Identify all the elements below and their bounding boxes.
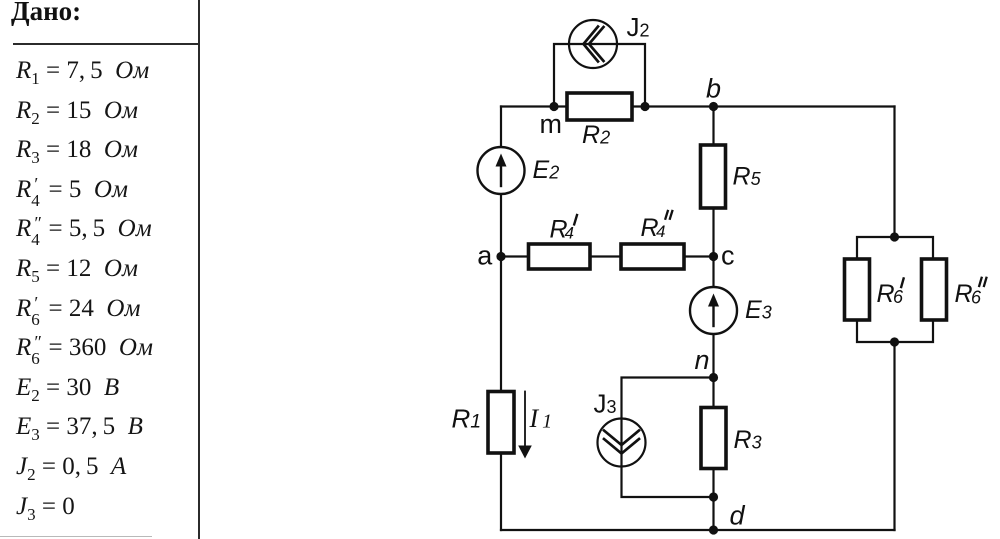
given J3 (16, 494, 75, 521)
svg-text:J3: J3 (594, 389, 617, 419)
svg-text:n: n (695, 345, 710, 375)
given R5 (16, 256, 138, 283)
resistor R5 (701, 145, 726, 208)
svg-text:R1: R1 (452, 404, 482, 434)
svg-text:6: 6 (971, 288, 982, 308)
current source J3 (598, 419, 646, 467)
faint bottom table line (0, 536, 152, 537)
junction R6 top (890, 232, 899, 241)
given list (0, 0, 200, 539)
wire: middle vertical branch b-c-n-d (712, 107, 714, 531)
wire: J2 bypass loop (554, 44, 645, 107)
svg-text:E2: E2 (533, 156, 560, 184)
svg-text:R: R (877, 280, 895, 308)
svg-text:d: d (730, 501, 746, 531)
current source J2 (569, 20, 617, 68)
wire: right vertical branch upper (893, 107, 895, 238)
node n (709, 373, 718, 382)
resistor R4' (529, 244, 591, 269)
svg-text:R: R (955, 280, 973, 308)
given R4' (16, 177, 128, 202)
svg-text:m: m (540, 109, 563, 139)
given R1 (16, 58, 149, 85)
svg-text:b: b (706, 73, 721, 103)
given R6' (16, 296, 140, 321)
node d (709, 525, 718, 534)
resistor R3 (701, 408, 726, 469)
resistor R4'' (621, 244, 684, 269)
svg-text:R3: R3 (734, 426, 762, 454)
node b (709, 102, 718, 111)
resistor R1 (488, 392, 514, 454)
wire: n to J3 loop (622, 378, 714, 498)
node m (549, 102, 558, 111)
svg-text:6: 6 (893, 287, 904, 307)
current arrow I1 (518, 392, 532, 459)
wire: right vertical branch lower (893, 342, 895, 530)
given R2 (16, 98, 138, 125)
wire: left vertical branch (E2/R1) (500, 107, 502, 531)
given R3 (16, 137, 138, 164)
svg-text:R5: R5 (733, 163, 762, 191)
resistor R6'' (922, 259, 947, 320)
emf source E2 (478, 147, 525, 194)
wire: a-c horizontal branch (501, 255, 714, 257)
svg-text:R2: R2 (582, 121, 610, 149)
given R6'' (16, 335, 153, 360)
svg-text:a: a (477, 240, 493, 270)
given R4'' (16, 216, 152, 241)
junction J3-R3 bottom (709, 492, 718, 501)
wire: top horizontal m-b rail (501, 105, 895, 107)
given table right border (198, 0, 200, 539)
label R6' (877, 279, 905, 309)
given E3 (16, 414, 143, 441)
given E2 (16, 375, 119, 402)
wire: R6 parallel top bar (857, 237, 933, 259)
given table header underline (13, 43, 198, 45)
junction R6 bottom (890, 337, 899, 346)
emf source E3 (690, 287, 737, 334)
svg-text:J2: J2 (627, 12, 650, 42)
resistor R6' (845, 259, 870, 320)
given J2 (16, 454, 126, 481)
resistor R2 (567, 93, 632, 120)
label R6'' (955, 278, 987, 308)
svg-text:I1: I1 (529, 404, 553, 433)
svg-text:4: 4 (656, 222, 665, 241)
junction right of R2 (640, 102, 649, 111)
wire: R6 parallel bottom bar (857, 320, 933, 342)
node a (496, 252, 505, 261)
svg-text:4: 4 (565, 224, 574, 243)
wire: bottom horizontal rail (501, 529, 895, 531)
label R4'' (641, 211, 673, 242)
node c (709, 252, 718, 261)
svg-text:c: c (721, 241, 735, 271)
label R4' (550, 215, 578, 244)
svg-text:E3: E3 (745, 296, 772, 324)
given table header (11, 0, 81, 27)
